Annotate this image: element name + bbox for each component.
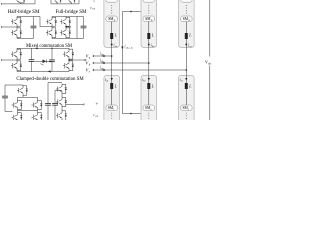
node : top junction dot [130, 11, 132, 13]
transistor T16 : right circuit top IGBT [56, 84, 67, 95]
transistor T18 : right circuit bottom IGBT (cropped) [56, 110, 67, 121]
wire : output [69, 59, 85, 61]
svg-text:Clamped-double commutation SM: Clamped-double commutation SM [16, 77, 84, 82]
arrow : bottom rail current arrow (left) [48, 70, 51, 72]
wire : HB bottom rail [17, 37, 34, 39]
transistor fragment : half-bridge SM lower IGBT (cropped) [17, 0, 25, 4]
svg-text:Full-bridge SM: Full-bridge SM [56, 10, 88, 15]
transistor T7 : left upper IGBT [11, 48, 22, 60]
wire : drops to row A legs [17, 97, 19, 99]
wire : left rail top [5, 85, 23, 96]
transistor fragment : full-bridge SM lower-left IGBT (cropped) [55, 0, 62, 4]
transistor T11 : top IGBT [17, 85, 28, 96]
arm U3 : phase c upper arm box [179, 0, 195, 70]
wire : HB capacitor rail [33, 17, 35, 27]
svg-text:L: L [151, 85, 154, 89]
node : FB output junction dot [65, 26, 66, 27]
wire : full-bridge SM left rail stub [50, 0, 52, 4]
wire : full-bridge SM right rail stub [78, 0, 80, 4]
svg-text:ab,c,1u: ab,c,1u [126, 47, 134, 50]
wire : bottom rail [17, 71, 69, 73]
node : cropped tick above v_sm [93, 0, 95, 2]
transistor T3 : FB upper-left IGBT [46, 17, 57, 27]
svg-text:sm: sm [92, 8, 95, 11]
svg-text:N: N [187, 19, 190, 22]
capacitor C5 : left rail capacitor [2, 96, 8, 98]
capacitor C4 : right clamp capacitor [49, 60, 55, 62]
arm U1 : phase a upper arm box [104, 0, 120, 56]
transistor T1 : HB upper IGBT [11, 17, 22, 27]
wire : half-bridge SM capacitor leg stub [34, 0, 36, 4]
arm L3 : phase c lower arm box [179, 70, 195, 124]
svg-text:+: + [96, 102, 99, 107]
capacitor C1 : HB DC capacitor [31, 26, 37, 28]
wire : left rail bottom [5, 98, 13, 112]
wire : FB bottom rail [52, 37, 84, 39]
node : phase c junction dot [186, 69, 188, 71]
svg-text:bl: bl [143, 80, 145, 83]
arrow : phase a current arrow [102, 55, 105, 57]
node : phase a line start tick [92, 55, 94, 57]
node : output junction dot [68, 59, 69, 60]
capacitor C3 : left clamp capacitor [29, 60, 35, 62]
svg-text:N: N [150, 19, 153, 22]
wire : step link HB to FB [40, 17, 52, 27]
wire : Vdc line lower [209, 66, 211, 121]
wire : top link [48, 83, 62, 104]
svg-text:sm: sm [95, 115, 98, 118]
transistor T10 : right lower IGBT [63, 60, 74, 71]
svg-text:L: L [114, 34, 117, 38]
wire : HB input [2, 26, 18, 28]
transistor T8 : left lower IGBT [11, 60, 22, 71]
node : FB output terminal circle [69, 26, 71, 28]
wire : FB right-side rail [76, 17, 78, 39]
arrow : top rail current arrow (left) [35, 47, 38, 49]
node : phase b line start tick [92, 62, 94, 64]
transistor T6 : FB lower-right IGBT [60, 27, 71, 38]
transistor T9 : right upper IGBT [63, 48, 74, 60]
wire : Vdc line upper [209, 0, 211, 57]
wire : phase b line [93, 62, 149, 64]
transistor T15 : row B right IGBT (cropped) [32, 112, 43, 123]
wire : capacitor rail middle [51, 48, 53, 60]
transistor T2 : HB lower IGBT [11, 27, 22, 38]
transistor T13 : row A right IGBT [32, 100, 43, 111]
node : output terminal circle [85, 59, 87, 61]
wire : outer rail bottom [47, 106, 49, 120]
transistor T4 : FB lower-left IGBT [46, 27, 57, 38]
node : phase a junction dot [111, 55, 113, 57]
wire : center measurement wire [122, 12, 140, 114]
node : bottom junction dot [130, 113, 132, 115]
arm L2 : phase b lower arm box [141, 63, 157, 124]
wire : link T17-T18 [61, 108, 63, 111]
transistor T14 : row B left IGBT (cropped) [12, 112, 23, 123]
wire : FB output stub [66, 26, 69, 28]
svg-text:N: N [113, 19, 116, 22]
node : junction dot top rail / middle rail [51, 48, 52, 49]
wire : T11 emitter link [23, 96, 38, 97]
diode D1 : middle horizontal clamp device [35, 60, 52, 66]
transistor fragment : full-bridge SM lower-right IGBT (cropped) [69, 0, 76, 4]
wire : FB capacitor rail [83, 17, 85, 27]
wire : full-bridge SM bottom rail [51, 3, 79, 5]
wire : phase a line [93, 55, 112, 57]
node : phase c line start tick [92, 69, 94, 71]
node : phase b junction dot [148, 62, 150, 64]
capacitor C7 : inner capacitor [52, 103, 58, 105]
wire : top rail [17, 47, 69, 49]
wire : half-bridge SM bottom rail [2, 3, 36, 5]
svg-text:L: L [151, 34, 154, 38]
capacitor C6 : outer capacitor [45, 103, 51, 105]
arrow : arm current arrow on center wire [121, 47, 123, 50]
wire : output line [66, 103, 84, 105]
svg-text:L: L [188, 85, 191, 89]
arm L1 : phase a lower arm box [104, 56, 120, 124]
svg-text:Half-bridge SM: Half-bridge SM [8, 10, 40, 15]
transistor T5 : FB upper-right IGBT [60, 17, 71, 27]
capacitor C2 : FB DC capacitor [81, 26, 87, 28]
wire : inner rail bottom [54, 106, 56, 120]
arrow : phase c current arrow [102, 69, 105, 71]
svg-text:al: al [106, 80, 108, 83]
arm U2 : phase b upper arm box [141, 0, 157, 63]
wire : phase c line [93, 69, 186, 71]
wire : inner rail [55, 91, 62, 104]
wire : capacitor rail left [31, 48, 33, 59]
wire : input [2, 59, 18, 61]
svg-text:L: L [114, 85, 117, 89]
svg-text:L: L [188, 34, 191, 38]
arrow : phase b current arrow [102, 62, 105, 64]
node : half-bridge SM input terminal tick [1, 3, 3, 5]
wire : HB top rail [17, 16, 40, 18]
wire : mid link row A to row B [18, 110, 38, 112]
node : HB input terminal tick [1, 26, 3, 28]
transistor T17 : right circuit middle IGBT [56, 97, 67, 108]
wire : FB top rail [52, 16, 84, 18]
node : output terminal tick [83, 103, 85, 105]
wire : link T16-T17 [61, 95, 63, 97]
node : input terminal tick [1, 59, 3, 61]
transistor T12 : row A left IGBT [12, 100, 23, 111]
